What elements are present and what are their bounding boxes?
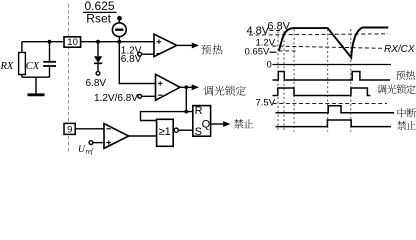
wire U2 out to R input [186, 87, 193, 111]
svg-text:6.8V: 6.8V [86, 78, 107, 89]
svg-text:RX: RX [0, 61, 14, 72]
ground [35, 77, 37, 93]
svg-text:S: S [195, 126, 202, 138]
wire [118, 37, 120, 42]
svg-text:R: R [195, 105, 203, 117]
block 10 [64, 37, 81, 47]
diode D1 [97, 42, 99, 57]
node source junction [117, 40, 121, 44]
dashed marker t1 [277, 31, 279, 132]
op-amp U2 [156, 74, 181, 100]
wire RX branch [21, 42, 23, 77]
svg-text:CX: CX [26, 61, 40, 72]
wire OR to S [178, 129, 192, 131]
node U2 out [184, 85, 188, 89]
block 9 [64, 123, 75, 134]
node R branch [184, 110, 188, 114]
dashed level 1.2V [273, 46, 384, 48]
svg-text:ref: ref [86, 148, 94, 155]
wire U2 output arrow [180, 86, 192, 88]
svg-text:10: 10 [67, 37, 78, 48]
dashed marker t4 [327, 29, 329, 132]
tick 0.65V [270, 51, 277, 53]
waveform tiaoguang [273, 88, 371, 96]
flip-flop RS [193, 106, 211, 137]
wire [118, 18, 120, 23]
terminal U1 inverting [138, 52, 142, 56]
label yure out [201, 45, 211, 55]
svg-text:0: 0 [267, 60, 272, 71]
label tiaoguang out [204, 86, 214, 96]
terminal Rset [117, 16, 122, 21]
wire rail to comparator U2 [119, 42, 155, 84]
dashed leader 6.8V [270, 29, 284, 31]
label jinzhi out [234, 119, 244, 129]
svg-text:9: 9 [67, 124, 72, 135]
wire block9 to U3 [75, 128, 104, 130]
capacitor CX [49, 42, 51, 62]
dashed marker t2 [283, 31, 285, 132]
waveform RX/CX [279, 28, 388, 58]
terminal 6.8V clamp [96, 71, 100, 75]
op-amp U3 [104, 124, 129, 149]
label yure row [396, 71, 405, 80]
dashed marker t5 [350, 29, 352, 132]
svg-text:Rset: Rset [86, 12, 111, 26]
wire [142, 95, 156, 97]
node cap junction [48, 40, 52, 44]
wire bottom [22, 76, 50, 78]
dashed level 4.8V [249, 34, 388, 35]
terminal Uref [89, 141, 93, 145]
waveform yure [273, 72, 391, 81]
op-amp U1 [154, 34, 177, 56]
waveform jinzhi [276, 120, 392, 127]
waveform zhongduan [276, 106, 395, 113]
wire U3 output [129, 135, 157, 137]
label tiaoguang row [377, 85, 386, 94]
current source I1 [112, 23, 126, 37]
wire branch to OR gate [141, 112, 187, 121]
svg-text:≥1: ≥1 [159, 126, 171, 138]
IC boundary dashed line [68, 4, 70, 152]
svg-text:Q: Q [202, 119, 211, 131]
terminal U2 inverting [138, 94, 142, 98]
svg-text:1.2V/6.8V: 1.2V/6.8V [94, 93, 138, 104]
dashed level 7.5V [273, 102, 387, 104]
label jinzhi row [397, 121, 406, 130]
node diode junction [96, 40, 100, 44]
svg-text:RX/CX: RX/CX [384, 44, 415, 55]
svg-text:0.65V: 0.65V [245, 47, 270, 58]
dashed level 0.65V [279, 50, 297, 52]
wire [93, 142, 104, 144]
terminal OR output [174, 128, 178, 132]
OR gate [157, 119, 174, 146]
resistor RX [19, 53, 26, 75]
axis 0 line [273, 64, 392, 66]
svg-text:7.5V: 7.5V [256, 97, 276, 108]
wire U1 output arrow [177, 44, 193, 46]
wire [142, 53, 154, 55]
wire Q output arrow [211, 123, 224, 125]
dashed marker t3 [293, 29, 295, 132]
wire top rail [22, 41, 154, 43]
label zhongduan row [398, 108, 406, 117]
